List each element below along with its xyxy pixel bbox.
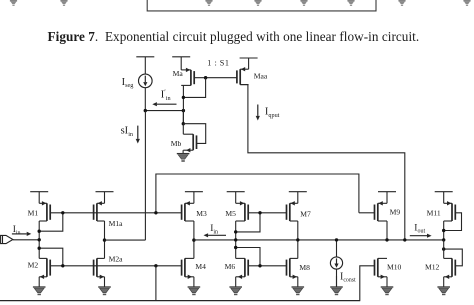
wire node A to Mb drain [182,111,184,124]
wire M5 diode tie [236,213,260,232]
svg-text:Iqput: Iqput [265,107,280,119]
wire main node rail [194,239,444,241]
current arrow I_in (input) [12,232,31,236]
transistor M4 [182,258,194,279]
wire M12 diode tie [444,249,463,266]
ground below M8 [292,277,305,295]
frame of cropped figure above (box bottom) [147,0,376,11]
wire N-mirror gate rail [50,265,181,267]
power VDD stub above I_seg [136,57,154,74]
svg-text:Ma: Ma [173,69,184,78]
wire M10 gate branch (cropped) [360,266,375,301]
transistor Ma [181,68,194,86]
current arrow I_in (stage 2) [204,233,227,237]
ground below M6 [229,277,242,295]
wire P-mirror link to M9 gate [156,174,359,213]
wire M5 drain vertical [235,221,237,258]
node output node (Maa wire) [403,238,406,241]
wire Mb diode tie [183,124,205,144]
port I_in input [1,235,13,243]
wire M5-M7 gate wire [248,212,286,214]
ground stub (cropped figure) 4 [254,1,261,6]
svg-text:I′in: I′in [161,89,171,102]
node M1/M2 drain node [38,238,41,241]
svg-text:M10: M10 [387,262,402,271]
wire N-rail branch down (cropped) [155,266,157,301]
ground stub (cropped figure) 3 [205,1,212,6]
ground below M4 [188,277,201,295]
power VDD stub above Ma [172,57,190,70]
transistor M7 [287,201,298,221]
transistor M1 [39,201,50,221]
node M5/M6 drain node [234,238,237,241]
transistor Maa [237,67,249,85]
wire M11 diode tie [444,213,462,231]
transistor Mb [183,134,196,152]
node N rail down branch [154,264,157,267]
transistor M10 [375,258,388,279]
wire M9 drain vertical [386,221,388,240]
wire I_const to ground [336,269,338,287]
node output node at M11/M12 [442,238,445,241]
ground stub (cropped figure) 1 [10,1,17,6]
svg-text:M12: M12 [425,262,440,271]
transistor M5 [236,201,249,221]
wire Mb drain lead down [182,124,184,135]
svg-text:Iseg: Iseg [122,77,134,89]
wire M1 drain vertical [38,221,40,258]
current arrow I_out [410,234,432,238]
ground stub (cropped figure) 8 [463,1,470,6]
wire Maa drain to output rail [240,84,248,86]
wire Ma gate rail to Maa [194,77,237,79]
transistor M2 [39,258,50,279]
svg-text:Mb: Mb [171,139,182,148]
transistor M1a [94,201,105,221]
node M7/M8 drain node [296,238,299,241]
node A left [144,109,147,112]
transistor M11 [444,201,456,221]
svg-text:M5: M5 [225,209,236,218]
transistor M9 [375,201,388,221]
svg-text:sIin: sIin [121,126,133,138]
node I_const node [335,238,338,241]
wire M6-M8 gate wire [248,265,286,267]
node M6 tie junction [234,246,237,249]
svg-text:M8: M8 [299,263,310,272]
node Ma gate node [204,76,207,79]
power VDD stub above M1 [30,192,48,204]
wire M12 drain vertical [443,240,445,259]
power VDD stub above M11 [435,192,453,204]
svg-text:M4: M4 [195,262,206,271]
transistor M6 [236,258,249,279]
ground stub (cropped figure) 7 [398,1,405,6]
svg-text:M2: M2 [28,261,39,270]
wire M2 diode tie [39,248,63,266]
power VDD stub above M1a [96,192,114,204]
node A right [182,109,185,112]
wire Ma drain vertical [182,85,184,123]
svg-text:Iin: Iin [210,224,218,235]
svg-text:Maa: Maa [254,72,268,81]
ground stub (cropped figure) 6 [347,1,354,6]
node P rail to M9 branch [154,211,157,214]
transistor M3 [182,201,194,221]
wire M9 gate lead [359,212,375,214]
node P rail at M1 gate [61,211,64,214]
wire M1 diode tie [39,213,63,231]
ground stub (cropped figure) 2 [60,1,67,6]
transistor M12 [444,258,456,279]
transistor M8 [287,258,298,279]
ground below M2 [33,277,46,295]
wire Maa drain long wire [248,85,405,240]
power VDD stub above M3 [185,192,203,204]
node M12 tie junction [442,247,445,250]
node M1a/M2a drain node [103,238,106,241]
node N rail at M2 gate [61,264,64,267]
power VDD stub above M9 [378,192,396,204]
current arrow I_qput [256,105,260,121]
wire M1a/M2a node to sI_in wire [105,239,146,241]
transistor M2a [94,258,105,279]
ground below Mb [177,150,190,162]
ground below M2a [98,277,111,295]
wire sI_in vertical [144,111,146,241]
wire node A row [145,110,183,112]
wire P-mirror gate rail [50,212,181,214]
wire bottom routing line (cropped) [0,300,360,302]
node M2 tie junction [38,247,41,250]
svg-text:M1: M1 [28,208,39,217]
svg-text:M3: M3 [196,209,207,218]
svg-text:Iconst: Iconst [340,271,356,283]
svg-text:Iout: Iout [414,223,425,234]
node M5 tie junction [234,230,237,233]
wire port to M1/M2 drains [13,239,39,241]
svg-text:1 : S1: 1 : S1 [207,58,229,67]
wire rail to I_const [336,240,338,257]
current arrow sI_in [136,126,140,144]
wire Ma diode tie [183,78,205,98]
power VDD stub above Maa [240,58,258,69]
node M3/M4 drain node [192,238,195,241]
current arrow I'_in [152,102,176,106]
wire I_seg source to node A [144,88,146,111]
caption Figure 7 [48,29,428,45]
node M1 tie junction [38,230,41,233]
svg-text:M11: M11 [427,208,441,217]
ground below I_const [330,276,343,295]
ground stub (cropped figure) 5 [300,1,307,6]
svg-text:M1a: M1a [109,219,124,228]
wire M3 drain vertical [193,221,195,258]
node M9/M10 drain node [385,238,388,241]
node M11 tie junction [442,229,445,232]
power VDD stub above M5 [227,192,245,204]
svg-text:M9: M9 [390,208,401,217]
ground below M12 [437,277,450,295]
svg-text:Iin: Iin [13,225,21,236]
node Mb drain node [182,122,185,125]
power VDD stub above M7 [289,192,307,204]
node Ma drain/gate tie [182,96,185,99]
wire M7 drain vertical [297,221,299,258]
node M5/M7 gate node [258,211,261,214]
wire M1a drain vertical [104,221,106,258]
svg-text:M7: M7 [300,210,311,219]
wire M6 diode tie [236,248,260,266]
svg-text:M6: M6 [225,262,236,271]
wire M11 drain vertical [443,221,445,240]
ground below M10 [381,277,394,295]
current source I_const [330,257,342,269]
node M6/M8 gate node [258,264,261,267]
current source I_seg [139,74,153,88]
svg-text:M2a: M2a [109,254,124,263]
